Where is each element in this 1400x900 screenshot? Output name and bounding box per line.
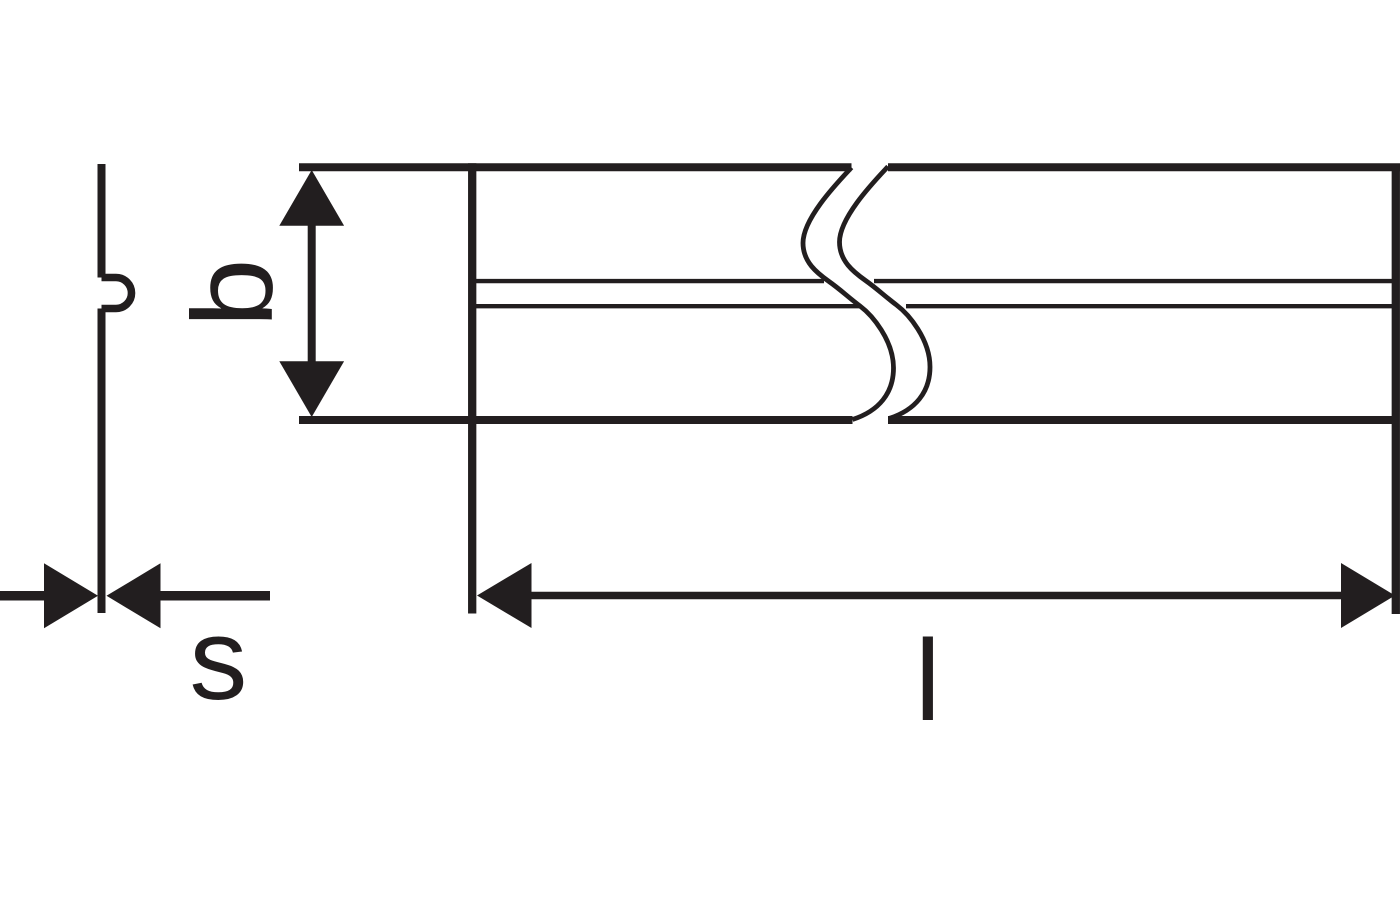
front view: top edge left segment — [299, 163, 852, 171]
dimension s: left arrowhead — [44, 563, 98, 628]
dimension s: right tail line — [158, 591, 270, 601]
dimension b: bottom arrowhead — [279, 361, 344, 417]
dimension l: right arrowhead — [1341, 563, 1395, 628]
svg-text:s: s — [189, 594, 247, 724]
front view: left end edge / extension line for l — [468, 163, 476, 613]
dimension s: left tail line — [0, 591, 46, 601]
dimension b: top arrowhead — [279, 170, 344, 226]
dimension l: left arrowhead — [477, 563, 532, 628]
side view: upper vertical edge segment — [98, 164, 106, 278]
front view: bottom edge left segment — [299, 416, 853, 424]
front view: top edge right segment — [888, 163, 1400, 171]
front view: upper rounded-edge line left segment — [473, 279, 824, 283]
side view: break bump (half-circle jog) — [102, 278, 132, 309]
front view: bottom edge right segment — [888, 416, 1399, 424]
front view: right end edge / extension line for l — [1392, 164, 1400, 614]
svg-text:b: b — [170, 258, 297, 327]
svg-text:l: l — [915, 616, 941, 745]
dimension b: vertical dimension line — [308, 222, 316, 365]
dimension s: right arrowhead — [107, 563, 161, 628]
break symbol: left freehand S-curve — [803, 168, 894, 420]
front view: upper rounded-edge line right segment — [874, 279, 1392, 283]
dimension l: horizontal dimension line — [528, 592, 1344, 600]
side view: lower vertical edge segment — [98, 309, 106, 614]
front view: lower rounded-edge line right segment — [906, 304, 1392, 308]
front view: lower rounded-edge line left segment — [473, 304, 861, 308]
break symbol: right freehand S-curve — [840, 167, 931, 419]
